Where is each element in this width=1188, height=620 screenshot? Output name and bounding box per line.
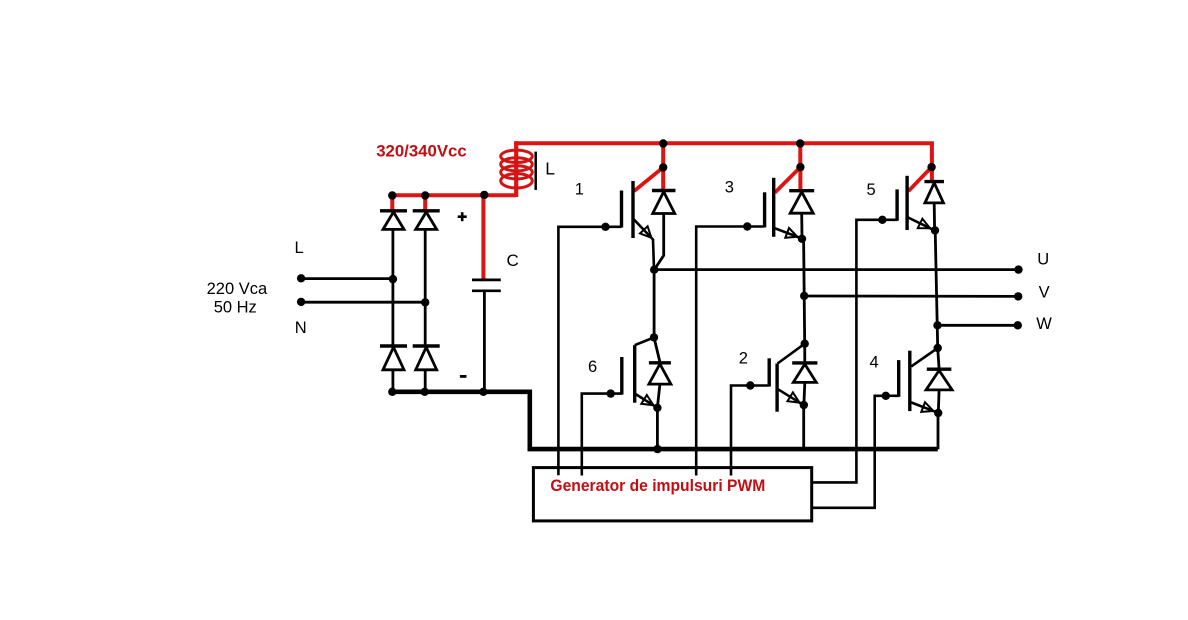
capacitor C <box>472 279 501 282</box>
node: Q3 collector star point <box>796 163 804 171</box>
node: negative rail / left leg <box>388 388 396 396</box>
wire: output phase U <box>654 268 1018 271</box>
node: L line / bridge junction <box>389 275 397 283</box>
wire: phase U column upper (midpoint to Q6 collector) <box>653 270 656 338</box>
wire: N input line <box>301 301 425 304</box>
wire: DC+ top bus with elbow down to Q5 (red) <box>514 143 932 167</box>
node: DC bus / phase U drop <box>659 139 667 147</box>
node: phase V midpoint <box>800 292 808 300</box>
node: + rail / D2 junction <box>421 191 429 199</box>
wire: gate drive to Q4 <box>812 396 899 508</box>
wire: DC+ drop to phase-V half bridge (red) <box>798 144 802 169</box>
wire: output phase V <box>804 295 1018 298</box>
inductor L (DC choke coil) <box>501 150 533 188</box>
freewheel diode of Q3 <box>789 189 814 192</box>
label: - polarity mark <box>460 375 467 378</box>
wire: Q3 freewheel diode anode to midpoint <box>800 213 803 238</box>
wire: Q3 collector connection (red diagonal) <box>775 167 801 193</box>
label: + polarity mark <box>458 215 467 218</box>
svg-text:L: L <box>295 239 304 257</box>
svg-text:50 Hz: 50 Hz <box>214 298 257 316</box>
node: phase W midpoint <box>933 321 941 329</box>
wire: capacitor C to negative rail <box>483 292 486 392</box>
svg-text:4: 4 <box>870 354 879 372</box>
node: Q5 gate <box>878 216 886 224</box>
wire: Q2 freewheel diode anode link <box>803 382 807 404</box>
wire: phase U column lower (to negative rail) <box>656 408 659 449</box>
wire: phase W column lower (to negative rail end) <box>937 413 940 449</box>
node: Q2 collector junction <box>801 340 809 348</box>
wire: Q5 freewheel diode anode to midpoint <box>933 203 936 230</box>
wire: DC+ drop to phase-U half bridge (red) <box>661 144 665 169</box>
node: Q2 gate <box>746 381 754 389</box>
wire: D4 anode to negative rail <box>424 370 427 392</box>
node: negative rail / right leg <box>421 388 429 396</box>
wire: Q2 freewheel diode cathode link <box>803 344 806 363</box>
wire: red stub from + rail to bridge diode D2 <box>423 196 427 213</box>
wire: capacitor C feed from + rail (red) <box>481 195 485 281</box>
transistor Q6 (IGBT) <box>620 357 623 395</box>
diode D1 (bridge upper-left) <box>380 209 407 212</box>
wire: phase V column (Q3 emitter to Q2 collector) <box>804 239 805 344</box>
node: Q4 collector junction <box>934 344 942 352</box>
diode D2 (bridge upper-right) <box>413 209 440 212</box>
node: U output terminal <box>1014 265 1022 273</box>
wire: output phase W <box>938 324 1018 327</box>
svg-text:Generator de impulsuri PWM: Generator de impulsuri PWM <box>550 476 765 495</box>
wire: gate drive to Q1 <box>558 227 621 475</box>
wire: Q6 collector diagonal <box>635 337 654 345</box>
svg-text:2: 2 <box>739 350 748 368</box>
node: Q2 emitter junction <box>800 401 808 409</box>
wire: L input line <box>301 277 393 280</box>
wire: gate drive to Q6 <box>582 394 622 476</box>
node: N line / bridge junction <box>421 298 429 306</box>
svg-text:320/340Vcc: 320/340Vcc <box>376 141 467 160</box>
node: Q4 gate <box>882 392 890 400</box>
node: W output terminal <box>1014 321 1022 329</box>
svg-text:L: L <box>545 159 555 179</box>
transistor Q4 (IGBT) <box>897 360 900 397</box>
wire: Q6 freewheel diode anode link <box>657 384 660 407</box>
transistor Q2 (IGBT) <box>768 358 771 386</box>
diode D3 (bridge lower-left) <box>380 344 407 347</box>
freewheel diode of Q4 <box>927 368 952 371</box>
node: + rail / capacitor junction <box>480 191 488 199</box>
diode D4 (bridge lower-right) <box>413 344 440 347</box>
wire: Q6 freewheel diode cathode link <box>654 337 660 362</box>
svg-text:220 Vca: 220 Vca <box>207 280 268 298</box>
node: Q5 collector star point <box>927 163 935 171</box>
wire: red stub from + rail to bridge diode D1 <box>390 196 394 213</box>
svg-text:U: U <box>1037 250 1049 268</box>
node: Q5 emitter junction <box>931 226 939 234</box>
node: negative rail / capacitor <box>479 388 487 396</box>
svg-text:3: 3 <box>725 178 734 196</box>
transistor Q3 (IGBT) <box>763 192 766 227</box>
label: L (inductor) bracket tick <box>534 152 537 190</box>
transistor Q1 (IGBT) <box>620 191 623 228</box>
wire: Q1 freewheel diode anode to midpoint <box>655 214 664 270</box>
node: N input terminal <box>297 298 305 306</box>
svg-text:6: 6 <box>588 358 597 376</box>
wire: gate drive to Q2 <box>731 386 769 476</box>
svg-text:1: 1 <box>575 181 584 199</box>
node: negative rail / phase U leg <box>653 445 661 453</box>
node: Q4 emitter junction <box>934 409 942 417</box>
node: Q6 emitter junction <box>653 404 661 412</box>
node: Q6 collector junction <box>650 333 658 341</box>
node: Q1 gate <box>601 223 609 231</box>
svg-text:N: N <box>295 319 307 337</box>
wire: red feed to freewheel diode of Q3 <box>798 167 802 192</box>
wire: negative DC rail (thick) <box>391 392 938 449</box>
wire: red feed to freewheel diode of Q5 <box>930 167 934 183</box>
freewheel diode of Q1 <box>652 189 676 192</box>
wire: Q4 collector diagonal <box>911 348 937 366</box>
wire: gate drive to Q5 <box>812 220 897 483</box>
wire: phase V column lower (to negative rail) <box>802 405 805 449</box>
svg-text:W: W <box>1036 315 1052 333</box>
node: DC bus / phase V drop <box>796 139 804 147</box>
wire: right bridge leg <box>424 229 427 347</box>
wire: D3 anode to negative rail <box>391 370 394 392</box>
svg-text:V: V <box>1039 283 1050 301</box>
wire: riser from + rail up to DC bus through choke (red) <box>514 141 518 197</box>
block: PWM pulse generator box <box>533 468 811 521</box>
wire: Q4 freewheel diode cathode link <box>938 348 939 369</box>
freewheel diode of Q5 <box>924 180 944 183</box>
wire: phase W column (Q5 emitter to Q4 collector) <box>935 230 938 348</box>
wire: Q5 collector connection (red diagonal) <box>908 167 931 191</box>
freewheel diode of Q6 <box>649 361 671 364</box>
wire: Q2 collector diagonal <box>778 344 805 364</box>
wire: left bridge leg <box>391 229 394 347</box>
wire: red feed to freewheel diode of Q1 <box>661 167 665 192</box>
wire: Q4 freewheel diode anode link <box>937 390 941 413</box>
wire: gate drive to Q3 <box>696 227 764 476</box>
node: Q3 emitter junction <box>798 235 806 243</box>
node: Q3 gate <box>743 222 751 230</box>
wire: rectifier positive output rail (red) <box>391 193 517 197</box>
node: phase U midpoint <box>650 266 658 274</box>
svg-text:C: C <box>507 251 519 270</box>
node: Q1 collector star point <box>659 163 667 171</box>
node: L input terminal <box>297 274 305 282</box>
node: V output terminal <box>1014 292 1022 300</box>
wire: Q1 collector connection (red diagonal) <box>634 167 663 191</box>
node: + rail / D1 junction <box>388 191 396 199</box>
freewheel diode of Q2 <box>792 361 817 364</box>
svg-text:5: 5 <box>867 181 876 199</box>
node: Q6 gate <box>607 389 615 397</box>
transistor Q5 (IGBT) <box>895 189 898 220</box>
